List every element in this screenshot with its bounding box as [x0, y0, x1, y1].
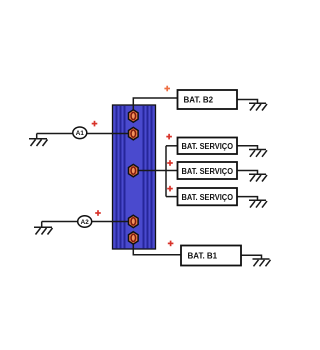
svg-text:A2: A2: [81, 219, 90, 226]
svg-text:BAT. SERVIÇO: BAT. SERVIÇO: [182, 142, 234, 151]
svg-text:BAT. SERVIÇO: BAT. SERVIÇO: [182, 193, 234, 202]
svg-text:BAT. B1: BAT. B1: [188, 252, 218, 261]
svg-text:A1: A1: [76, 130, 85, 137]
svg-text:BAT. B2: BAT. B2: [184, 96, 214, 105]
svg-text:BAT. SERVIÇO: BAT. SERVIÇO: [182, 167, 234, 176]
